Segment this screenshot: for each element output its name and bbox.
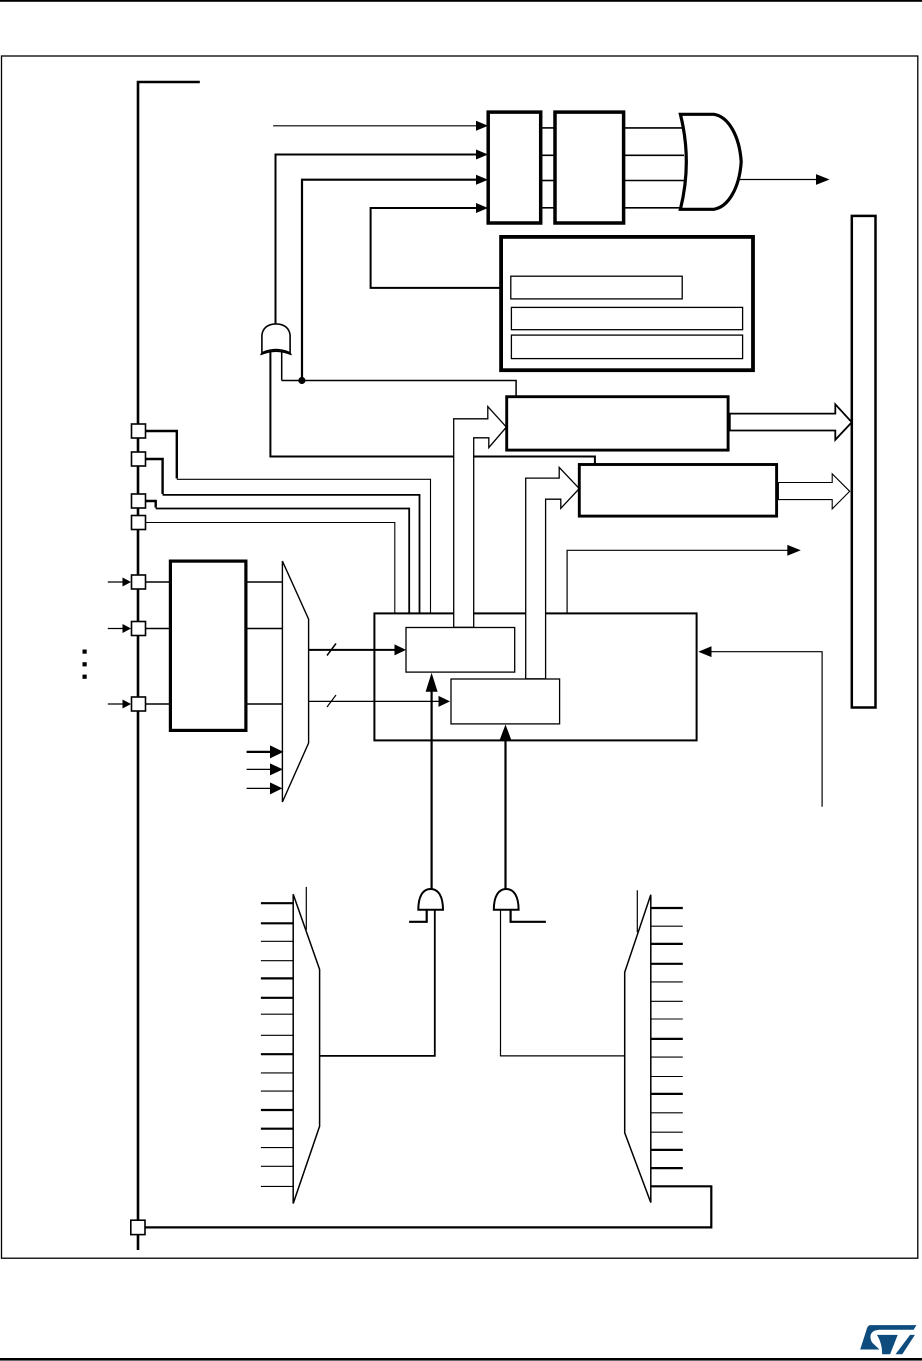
pin square sq6 xyxy=(132,622,146,636)
mux M1 trapezoid xyxy=(282,561,308,802)
mux M3 select stub xyxy=(636,890,638,932)
mux M2 trapezoid xyxy=(293,894,319,1203)
wire OR G1 left input from box B top xyxy=(270,353,595,465)
AND gate A1 input from mux M2 xyxy=(320,910,435,1056)
central block xyxy=(374,613,696,740)
wire w4 xyxy=(146,523,395,615)
AND gate A1 output arrow into i1 xyxy=(426,673,438,889)
mux M2 select stub xyxy=(305,887,307,930)
ellipsis dots xyxy=(83,650,87,679)
feedback wire into central block right xyxy=(698,646,822,807)
hollow bus arrow up into box B xyxy=(526,467,580,678)
arrow into sq6 xyxy=(108,624,131,633)
wire a4 from register r1 to box L xyxy=(371,203,511,288)
pin square sq2 xyxy=(132,452,146,466)
line left box to mux M1 row1 xyxy=(246,581,283,583)
data bus bar xyxy=(852,216,876,708)
arrow t3 into mux M1 xyxy=(247,782,283,794)
mux M1 output arrow to i2 xyxy=(309,696,450,707)
bold box T xyxy=(501,237,753,370)
line sq5 to left box xyxy=(146,581,171,583)
mux M1 output bus arrow to i1 xyxy=(309,644,406,655)
junction wire to box A top xyxy=(282,381,516,397)
bus slash mark 1 xyxy=(327,644,336,656)
register r2 xyxy=(511,307,742,329)
inner register box i2 xyxy=(451,679,560,724)
wire w3 stub xyxy=(146,501,156,508)
wire a3 from junction to box L xyxy=(302,175,488,381)
inner register box i1 xyxy=(406,628,515,673)
wire w1 xyxy=(177,479,431,614)
line left box to mux M1 row2 xyxy=(246,628,283,630)
lines box R to or gate G2 xyxy=(624,128,684,208)
pin square sq7 xyxy=(132,697,146,711)
line left box to mux M1 row3 xyxy=(246,703,283,705)
junction dot xyxy=(298,377,305,384)
ST logo xyxy=(860,1325,916,1354)
line sq7 to left box xyxy=(146,703,171,705)
arrow into sq7 xyxy=(108,700,131,709)
lines box L to box R xyxy=(541,128,555,208)
AND gate A1 xyxy=(418,889,443,910)
box A xyxy=(507,397,728,450)
box B xyxy=(579,465,776,517)
hollow bus arrow up into box A xyxy=(454,407,507,628)
or gate G1 xyxy=(262,324,290,353)
wire a2 from OR gate G1 to box L xyxy=(276,150,489,325)
bottom feedback wire from bus pin to mux M3 xyxy=(146,1186,712,1227)
AND gate A1 enable input step xyxy=(409,910,427,922)
box R xyxy=(555,112,624,223)
pin square sq8 xyxy=(131,1220,145,1234)
wire w1 stub xyxy=(146,431,177,479)
left bold box xyxy=(170,561,246,730)
header rule xyxy=(0,0,922,2)
mux M3 input ticks xyxy=(651,908,683,1168)
pin square sq3 xyxy=(132,494,146,508)
pin square sq4 xyxy=(132,516,146,530)
mux M3 trapezoid xyxy=(625,895,651,1203)
arrow t1 into mux M1 xyxy=(247,745,284,758)
bus slash mark 2 xyxy=(327,695,336,707)
arrow into sq5 xyxy=(108,578,131,587)
AND gate A2 input from mux M3 xyxy=(501,910,625,1056)
or gate G2 output arrow xyxy=(739,174,830,185)
wire w2 xyxy=(163,495,420,614)
AND gate A2 xyxy=(494,889,519,910)
hollow arrow box A to bus xyxy=(730,404,852,440)
wire a1 into box L xyxy=(273,121,488,131)
arrow t2 into mux M1 xyxy=(247,763,283,775)
hollow arrow box B to bus xyxy=(778,474,849,509)
register r1 xyxy=(511,276,682,299)
wire w2 stub xyxy=(146,459,163,494)
AND gate A2 output arrow into i2 xyxy=(500,725,512,890)
bus vertical line xyxy=(138,82,200,1250)
wire w3 xyxy=(156,509,410,615)
pin square sq5 xyxy=(132,575,146,589)
pin square sq1 xyxy=(132,424,146,438)
or gate G1 input arc xyxy=(260,351,291,355)
register r3 xyxy=(511,335,742,359)
box L xyxy=(488,112,541,223)
AND gate A2 enable input step xyxy=(511,910,546,922)
wire OR G1 right input xyxy=(281,353,283,381)
or gate G2 xyxy=(680,114,741,209)
mux M2 input ticks xyxy=(261,903,293,1186)
line sq6 to left box xyxy=(146,628,171,630)
thin arrow from central block top xyxy=(567,545,801,614)
footer rule xyxy=(0,1358,922,1361)
